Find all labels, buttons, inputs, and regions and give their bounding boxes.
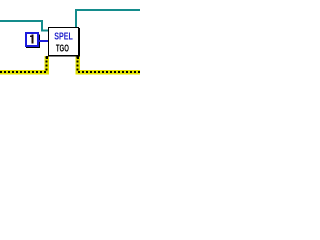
wire: teal output wire from node top terminal to right edge — [76, 10, 140, 27]
background — [0, 0, 140, 101]
wire: error wire left segment (yellow/black dashed) — [0, 56, 48, 72]
wire: error wire right segment (yellow/black dashed) — [77, 56, 140, 72]
svg-text:TGO: TGO — [56, 44, 69, 55]
wire: blue integer wire from constant to node — [38, 40, 48, 42]
node U1: subVI "SPEL TGO" (white box with black border and shadow) — [48, 28, 80, 57]
constant K1: numeric constant "1" (blue box with drop shadow) — [26, 33, 40, 48]
wire: teal input wire from left edge into node left terminal — [0, 21, 48, 31]
svg-text:SPEL: SPEL — [54, 32, 73, 43]
